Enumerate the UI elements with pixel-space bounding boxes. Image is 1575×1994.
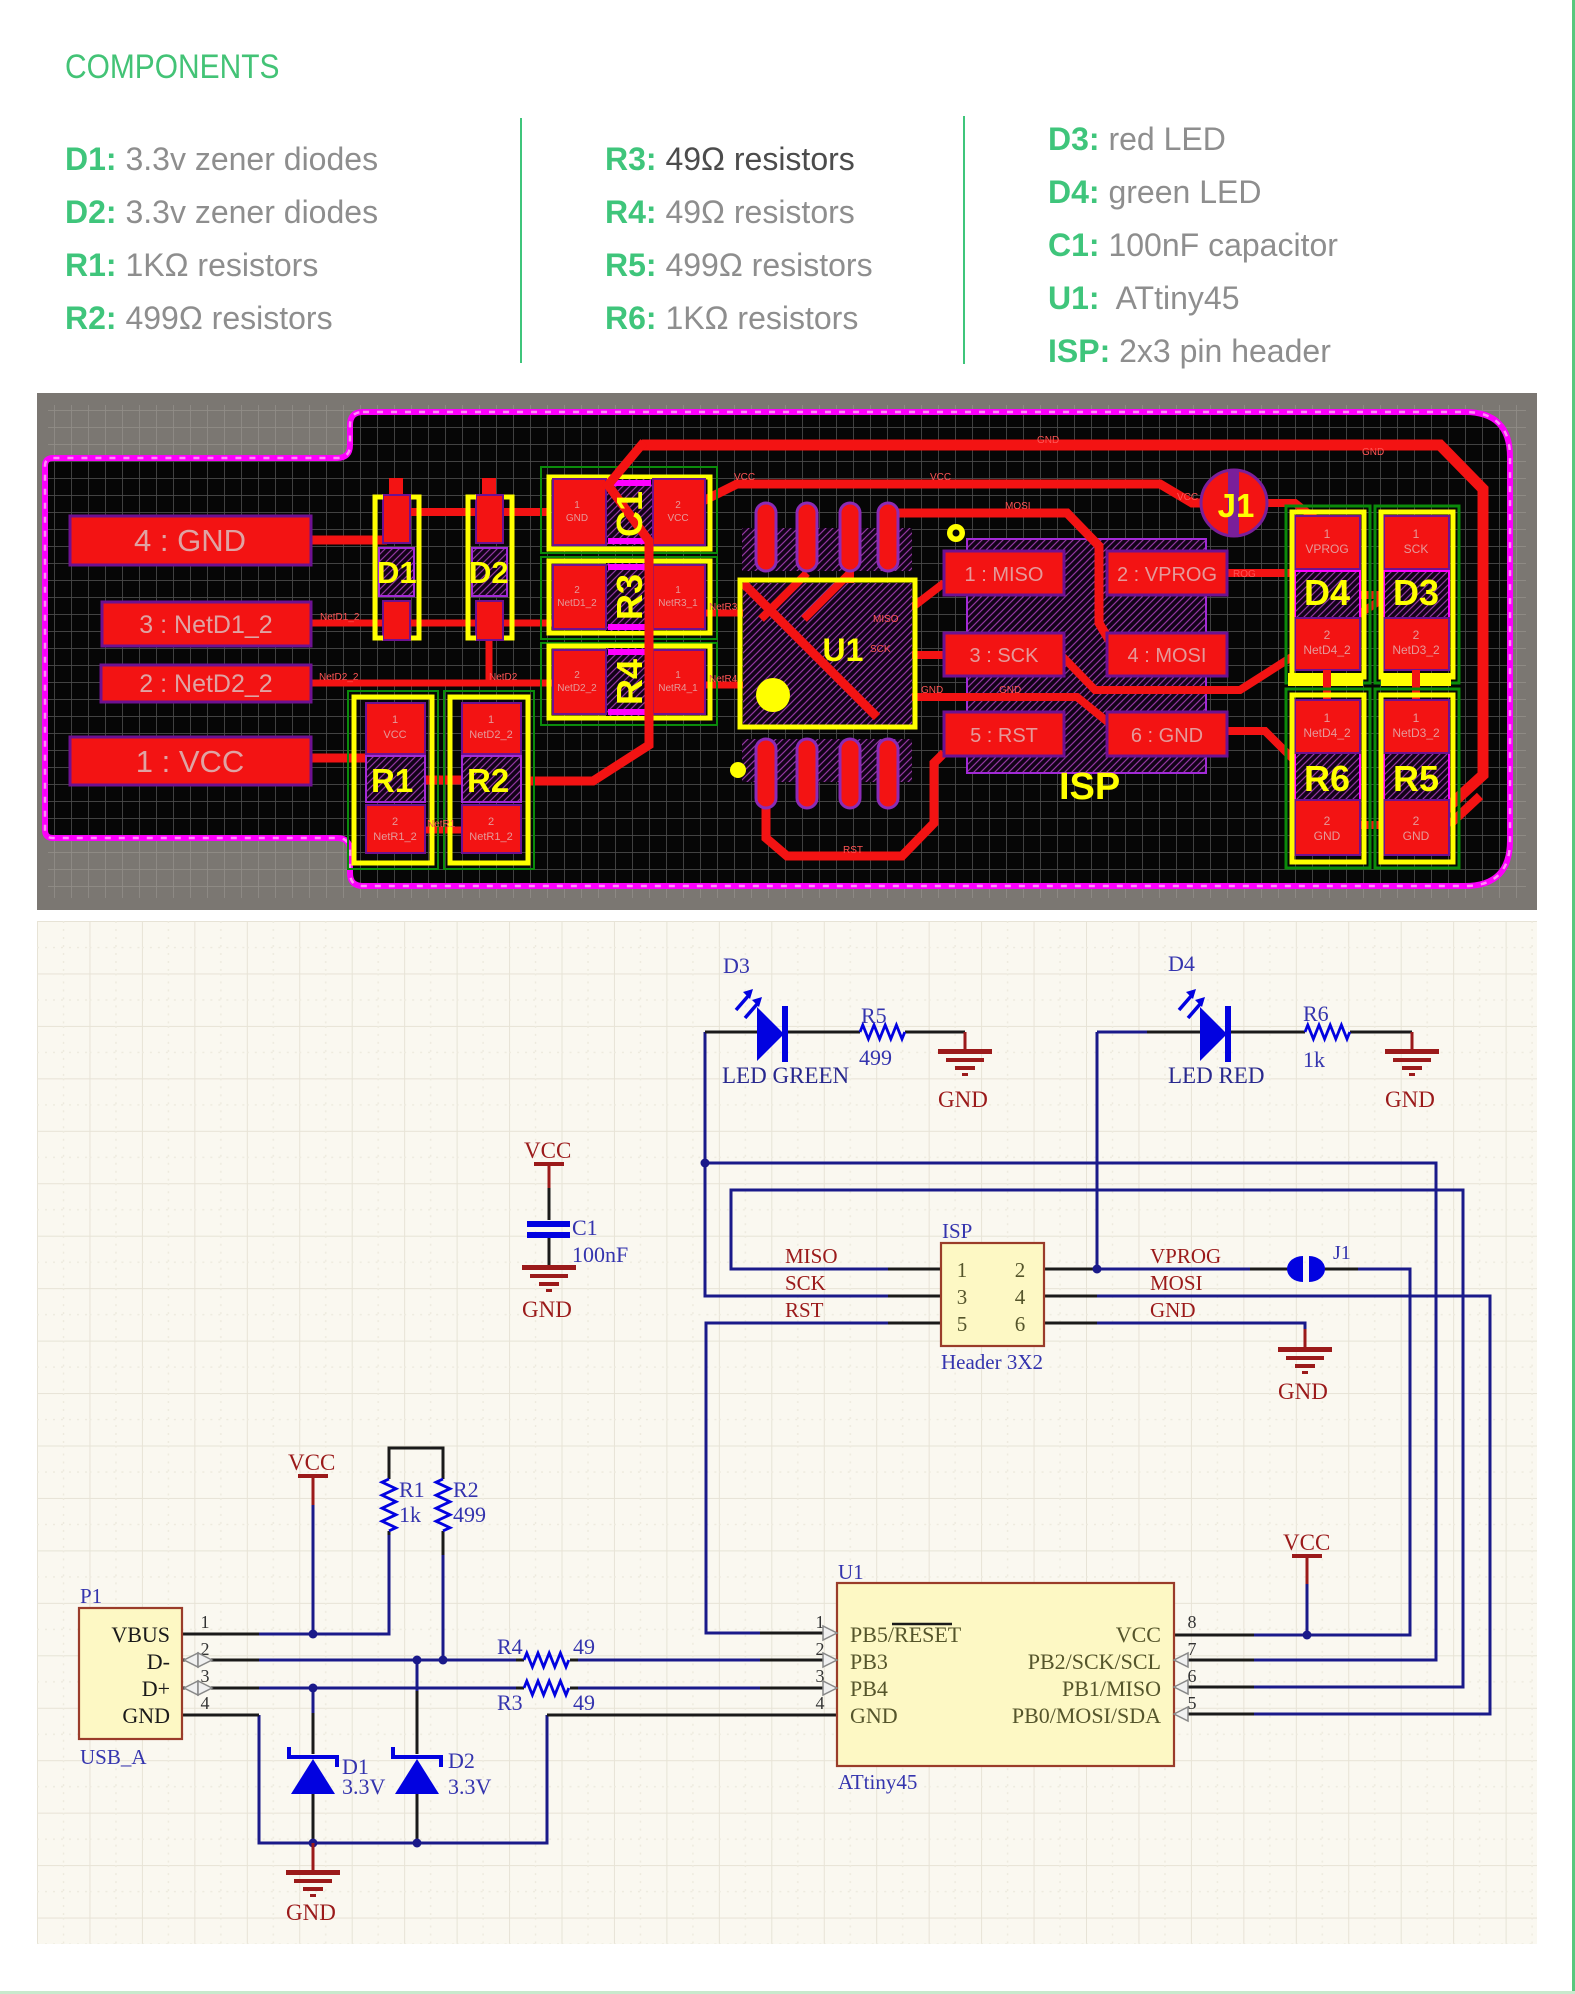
wire D3 row black segments [705, 1031, 965, 1034]
wire VBUS row [259, 1533, 389, 1634]
header ISP [941, 1219, 1044, 1374]
svg-text:NetD2_2: NetD2_2 [319, 672, 359, 683]
LED D4 [1168, 951, 1264, 1088]
svg-text:NetR3_1: NetR3_1 [658, 598, 698, 609]
black wire segments [182, 1032, 1412, 1843]
trace GND pad to R6 [1225, 731, 1299, 823]
trace 1:VCC pad to R1 [311, 754, 370, 763]
svg-text:1 : VCC: 1 : VCC [136, 744, 245, 779]
wire VCC tap to VBUS [312, 1505, 315, 1634]
svg-text:GND: GND [921, 685, 943, 696]
resistor R4 [497, 1634, 595, 1667]
svg-text:499: 499 [859, 1045, 892, 1070]
svg-text:1k: 1k [1303, 1047, 1325, 1072]
svg-text:LED GREEN: LED GREEN [722, 1063, 850, 1088]
svg-text:NetR1_2: NetR1_2 [373, 831, 416, 843]
zener diode D1 [289, 1747, 386, 1799]
wire D+ row [259, 1687, 760, 1690]
node D1-GND rail junction [309, 1839, 318, 1848]
wire D4 row black segments [1147, 1031, 1412, 1034]
trace NetD2_2 row [311, 680, 557, 687]
zener diode D2 [393, 1747, 492, 1799]
svg-text:1 : MISO: 1 : MISO [965, 564, 1044, 586]
svg-text:VCC: VCC [1283, 1530, 1330, 1555]
svg-text:SCK: SCK [785, 1271, 826, 1295]
wire C1 stem black parts [548, 1188, 551, 1265]
pin 2 bidirectional arrows [184, 1653, 212, 1695]
resistor R2 footprint [444, 691, 534, 869]
svg-text:J1: J1 [1333, 1242, 1351, 1264]
resistor R6 [1303, 1001, 1350, 1072]
wire VCC left stem [312, 1478, 315, 1505]
resistor R6 footprint [1286, 689, 1370, 868]
svg-text:J1: J1 [1218, 487, 1255, 524]
svg-text:SCK: SCK [870, 644, 891, 655]
svg-text:NetD4_2: NetD4_2 [1303, 726, 1351, 740]
wire GND stub D4 [1411, 1032, 1414, 1049]
svg-text:2: 2 [675, 500, 681, 511]
svg-text:2 : VPROG: 2 : VPROG [1117, 564, 1217, 586]
trace MOSI from U1 [888, 513, 1112, 645]
trace GND top ring [642, 445, 1483, 819]
svg-text:R3: R3 [609, 574, 650, 620]
svg-text:GND: GND [850, 1703, 898, 1728]
svg-text:D4: D4 [1304, 572, 1350, 613]
svg-text:2: 2 [574, 585, 580, 596]
resistor R1 footprint [348, 691, 438, 869]
grey frame of PCB image [37, 393, 1537, 910]
svg-text:3.3V: 3.3V [342, 1774, 386, 1799]
node VCC-pin8 junction [1303, 1631, 1312, 1640]
svg-text:NetR3: NetR3 [709, 602, 738, 613]
pad 3:NetD1_2 [102, 602, 311, 646]
svg-text:3.3V: 3.3V [448, 1774, 492, 1799]
wire U1 pin8 run [1254, 1634, 1410, 1637]
LED D3 [722, 953, 850, 1088]
wire around R3 zigzag [516, 1687, 578, 1690]
trace RST loop [766, 753, 944, 856]
svg-text:1: 1 [675, 585, 681, 596]
wire GND stub D3 [964, 1032, 967, 1049]
svg-text:VCC: VCC [1177, 492, 1198, 503]
svg-text:RST: RST [843, 845, 863, 856]
svg-text:2: 2 [488, 816, 494, 828]
svg-text:1: 1 [1413, 711, 1420, 725]
svg-text:GND: GND [1362, 447, 1384, 458]
svg-text:1: 1 [957, 1258, 968, 1282]
svg-text:4 : MOSI: 4 : MOSI [1128, 645, 1207, 667]
pin arrows left [823, 1626, 837, 1695]
svg-text:R1: R1 [399, 1477, 425, 1502]
svg-text:VCC: VCC [734, 472, 755, 483]
wire J1 stubs [1250, 1268, 1358, 1271]
wire P1 pin stubs [182, 1634, 259, 1715]
trace GND mid [912, 697, 1109, 723]
svg-text:LED RED: LED RED [1168, 1063, 1264, 1088]
wire VCC U1 stem [1306, 1558, 1309, 1584]
node R2-Dminus junction [439, 1656, 448, 1665]
svg-text:R5: R5 [861, 1003, 887, 1028]
svg-text:2: 2 [574, 670, 580, 681]
svg-text:VCC: VCC [524, 1138, 571, 1163]
svg-text:GND: GND [286, 1900, 336, 1925]
wire D4 anode vertical [1097, 1032, 1147, 1269]
wire RST: ISP pin5 to U1 pin1 (PB5) [706, 1323, 888, 1633]
power VCC at U1 [1283, 1530, 1330, 1558]
svg-text:SCK: SCK [1404, 542, 1429, 556]
svg-text:1: 1 [1324, 711, 1331, 725]
svg-text:5 : RST: 5 : RST [970, 725, 1038, 747]
trace 4:GND pad to D1 [311, 536, 387, 545]
resistor R3 footprint [541, 557, 717, 639]
trace R1-R2 mid bridge [425, 776, 466, 785]
svg-text:USB_A: USB_A [80, 1745, 147, 1769]
ground symbol bottom [286, 1843, 340, 1925]
svg-text:1: 1 [675, 670, 681, 681]
svg-text:NetR4: NetR4 [709, 674, 738, 685]
svg-text:ISP: ISP [1059, 766, 1120, 808]
via yellow dot lower left of U1 [730, 762, 746, 778]
wire below R2 zig [442, 1531, 445, 1555]
tiny red net name labels [319, 435, 1384, 856]
svg-text:NetR4_1: NetR4_1 [658, 683, 698, 694]
trace R4 right [705, 682, 760, 689]
trace U1 to SCK pad [912, 651, 944, 659]
svg-text:D4: D4 [1168, 951, 1195, 976]
svg-text:6: 6 [1188, 1666, 1197, 1686]
node D3-SCK junction [701, 1159, 710, 1168]
node D2-Dminus junction [413, 1656, 422, 1665]
capacitor C1 [527, 1215, 628, 1267]
trace VPROG pad to D4 [1225, 569, 1299, 577]
wire D2 top stub [416, 1660, 419, 1691]
component list column 2 [605, 133, 873, 345]
svg-text:7: 7 [1188, 1639, 1197, 1659]
svg-text:1: 1 [574, 500, 580, 511]
svg-text:VPROG: VPROG [1305, 542, 1348, 556]
svg-text:GND: GND [1385, 1087, 1435, 1112]
svg-text:MISO: MISO [873, 614, 899, 625]
svg-text:2: 2 [1413, 628, 1420, 642]
svg-text:NetD2_2: NetD2_2 [557, 683, 597, 694]
svg-text:NetD4_2: NetD4_2 [1303, 643, 1351, 657]
svg-text:VCC: VCC [667, 513, 688, 524]
svg-text:D3: D3 [1393, 572, 1439, 613]
stubs D4-R6 and D3-R5 [1327, 670, 1416, 705]
wire U1 GND pin run [547, 1714, 837, 1717]
svg-text:D2: D2 [469, 555, 509, 590]
IC U1 footprint [740, 503, 915, 808]
trace R5 to ring [1449, 796, 1480, 825]
trace U1 pad3 to MISO pad [850, 565, 944, 606]
black board area (USB stick outline) [45, 412, 1510, 886]
svg-text:GND: GND [938, 1087, 988, 1112]
svg-text:R2: R2 [467, 762, 509, 799]
pad 6:GND [1107, 712, 1227, 756]
svg-text:R1: R1 [371, 762, 413, 799]
trace NetD1_2 row [311, 620, 557, 627]
bottom light green strip [0, 1991, 1575, 1994]
svg-text:1: 1 [488, 714, 494, 726]
svg-text:GND: GND [122, 1703, 170, 1728]
svg-text:PB3: PB3 [850, 1649, 888, 1674]
wire D- row [259, 1659, 760, 1662]
svg-text:8: 8 [1188, 1612, 1197, 1632]
pin arrows right [1174, 1653, 1188, 1721]
wire D1 top stub [312, 1688, 315, 1713]
svg-text:GND: GND [566, 513, 588, 524]
svg-text:R6: R6 [1303, 1001, 1329, 1026]
PCB image placeholder [37, 393, 1537, 910]
node D1-Dplus junction [309, 1684, 318, 1693]
svg-text:D-: D- [147, 1649, 170, 1674]
wire D1 vertical black [312, 1713, 315, 1843]
pad 4:GND [70, 516, 311, 565]
pad 2:NetD2_2 [101, 665, 311, 702]
svg-text:D1: D1 [377, 555, 417, 590]
svg-text:GND: GND [999, 685, 1021, 696]
svg-text:D+: D+ [142, 1676, 170, 1701]
resistor R5 [859, 1003, 905, 1070]
wire VCC C1 stem [548, 1166, 551, 1188]
svg-text:C1: C1 [609, 491, 650, 537]
LED D3 footprint [1375, 506, 1459, 683]
jumper J1 [1201, 470, 1267, 536]
trace SCK to D3 [1062, 600, 1381, 690]
wire ISP pin6 to GND [1097, 1323, 1305, 1331]
wire ISP pin stubs [888, 1269, 1097, 1323]
svg-text:2: 2 [392, 816, 398, 828]
svg-text:ATtiny45: ATtiny45 [838, 1770, 917, 1794]
trace R6-R5 bottom bridge [1357, 821, 1385, 829]
trace C1 to R2 vertical [528, 442, 649, 781]
trace VCC horizontal [703, 484, 1204, 503]
svg-text:NetD3_2: NetD3_2 [1392, 726, 1440, 740]
component list column 3 [1048, 113, 1338, 378]
svg-text:R5: R5 [1393, 758, 1439, 799]
svg-text:GND: GND [1403, 829, 1430, 843]
capacitor C1 footprint [541, 467, 717, 553]
svg-text:D2: D2 [448, 1748, 475, 1773]
pad 4:MOSI [1107, 633, 1227, 676]
ground symbol at ISP [1278, 1347, 1332, 1404]
node D4-VPROG junction [1093, 1265, 1102, 1274]
IC U1 ATtiny45 [816, 1560, 1197, 1794]
svg-text:R4: R4 [609, 659, 650, 705]
wire P1 GND down, rail, up to U1 GND [259, 1715, 547, 1843]
svg-text:RST: RST [785, 1298, 824, 1322]
wire U1 left pin stubs [760, 1633, 837, 1688]
svg-text:2: 2 [1413, 814, 1420, 828]
svg-text:GND: GND [1150, 1298, 1196, 1322]
power VCC left [288, 1450, 335, 1478]
svg-text:R2: R2 [453, 1477, 479, 1502]
svg-text:5: 5 [1188, 1693, 1197, 1713]
wire MISO: ISP pin1 loop to U1 pin6 (PB1) [731, 1190, 1463, 1687]
resistor R1 [382, 1477, 425, 1531]
wire D3 anode down + SCK row to ISP pin3 [705, 1032, 888, 1296]
node VCC-VBUS junction [309, 1630, 318, 1639]
svg-text:GND: GND [522, 1297, 572, 1322]
svg-text:MOSI: MOSI [1150, 1271, 1203, 1295]
svg-text:4: 4 [816, 1693, 825, 1713]
svg-text:GND: GND [1037, 435, 1059, 446]
magenta board outline [45, 412, 1510, 886]
svg-text:P1: P1 [80, 1584, 102, 1608]
svg-text:2: 2 [1015, 1258, 1026, 1282]
svg-text:NetR1: NetR1 [427, 819, 456, 830]
svg-text:1: 1 [201, 1612, 210, 1632]
svg-text:100nF: 100nF [572, 1242, 628, 1267]
svg-text:GND: GND [1314, 829, 1341, 843]
svg-text:NetD1_2: NetD1_2 [557, 598, 597, 609]
wire D2 vertical black [416, 1691, 419, 1843]
svg-text:PB0/MOSI/SDA: PB0/MOSI/SDA [1012, 1703, 1161, 1728]
wire MOSI: ISP pin4 to U1 pin5 (PB0) [1097, 1296, 1490, 1714]
resistor R3 [497, 1681, 595, 1715]
wire VPROG from junction to J1 [1097, 1268, 1250, 1271]
svg-text:6 : GND: 6 : GND [1131, 725, 1203, 747]
svg-text:1: 1 [1324, 527, 1331, 541]
jumper J1 [1287, 1242, 1351, 1282]
svg-text:2: 2 [1324, 628, 1331, 642]
svg-text:VBUS: VBUS [111, 1622, 170, 1647]
trace J1 to D4 [1265, 503, 1322, 524]
junction dots [309, 1159, 1312, 1848]
svg-text:C1: C1 [572, 1215, 598, 1240]
dark red power stems [313, 1032, 1412, 1584]
wire J1 to VCC vertical to U1 pin8 [1254, 1269, 1410, 1635]
resistor R2 [436, 1477, 486, 1531]
pad 5:RST [944, 712, 1064, 756]
svg-text:3 : SCK: 3 : SCK [970, 645, 1040, 667]
svg-text:U1: U1 [838, 1560, 864, 1584]
LED D4 footprint [1286, 506, 1370, 683]
ground symbol at R6 [1385, 1049, 1439, 1112]
ISP hatch region [967, 539, 1206, 773]
svg-text:NetD2: NetD2 [489, 672, 518, 683]
via yellow ring near MOSI [947, 524, 965, 542]
svg-text:1: 1 [392, 714, 398, 726]
svg-text:NetD3_2: NetD3_2 [1392, 643, 1440, 657]
svg-text:499: 499 [453, 1502, 486, 1527]
svg-text:PB1/MISO: PB1/MISO [1062, 1676, 1161, 1701]
svg-text:R3: R3 [497, 1690, 523, 1715]
wire U1 right pin stubs [1174, 1635, 1254, 1714]
svg-text:49: 49 [573, 1634, 595, 1659]
svg-text:ISP: ISP [942, 1219, 972, 1243]
trace D4-D3 bridge [1359, 591, 1387, 599]
svg-text:R6: R6 [1304, 758, 1350, 799]
svg-text:VCC: VCC [1116, 1622, 1161, 1647]
wire around R4 zigzag [516, 1659, 578, 1662]
svg-text:2: 2 [1324, 814, 1331, 828]
svg-text:3 : NetD1_2: 3 : NetD1_2 [139, 611, 272, 639]
trace D1-D2-C1 top row [397, 508, 548, 516]
connector P1 USB_A [79, 1584, 212, 1769]
wire net D3/SCK to U1 pin7 (PB2) [705, 1163, 1436, 1660]
ground symbol at R5 [938, 1049, 992, 1112]
right green edge line [1572, 0, 1575, 1994]
svg-text:VCC: VCC [930, 472, 951, 483]
trace R1-R2 bottom bridge [425, 827, 466, 834]
wire R1 R2 top loop [389, 1448, 443, 1479]
trace D2 bottom stub [486, 633, 493, 683]
resistor R4 footprint [541, 643, 717, 725]
pad 2:VPROG [1107, 551, 1227, 595]
svg-text:6: 6 [1015, 1312, 1026, 1336]
yellow silscreen bars between D and R columns [1288, 673, 1363, 686]
svg-text:VPROG: VPROG [1150, 1244, 1221, 1268]
svg-text:ROG: ROG [1233, 569, 1256, 580]
svg-text:NetD1_2: NetD1_2 [320, 612, 360, 623]
svg-text:1: 1 [1413, 527, 1420, 541]
svg-text:PB2/SCK/SCL: PB2/SCK/SCL [1028, 1649, 1161, 1674]
diode D2 footprint [468, 478, 512, 640]
svg-text:49: 49 [573, 1690, 595, 1715]
trace R3 right [705, 610, 760, 617]
svg-text:4: 4 [1015, 1285, 1026, 1309]
pad 1:MISO [944, 551, 1064, 595]
svg-text:4 : GND: 4 : GND [134, 523, 246, 558]
svg-text:MISO: MISO [785, 1244, 838, 1268]
svg-text:4: 4 [201, 1693, 210, 1713]
svg-text:2 : NetD2_2: 2 : NetD2_2 [139, 670, 272, 698]
svg-text:VCC: VCC [288, 1450, 335, 1475]
power VCC at C1 [524, 1138, 571, 1166]
svg-text:Header 3X2: Header 3X2 [941, 1350, 1043, 1374]
pad 3:SCK [944, 633, 1064, 676]
wire GND stub ISP [1304, 1329, 1307, 1347]
wire R2 bottom to D- row [442, 1553, 445, 1660]
svg-text:VCC: VCC [383, 729, 406, 741]
wire VCC U1 stem [1306, 1584, 1309, 1635]
svg-text:PB4: PB4 [850, 1676, 888, 1701]
ground symbol at C1 [522, 1265, 576, 1322]
svg-text:3: 3 [957, 1285, 968, 1309]
wire below R1 zig [388, 1531, 391, 1535]
svg-text:MOSI: MOSI [1005, 501, 1031, 512]
resistor R5 footprint [1375, 689, 1459, 868]
schematic placeholder [37, 921, 1537, 1944]
svg-text:PB5/RESET: PB5/RESET [850, 1622, 962, 1647]
svg-text:U1: U1 [823, 632, 864, 668]
svg-text:GND: GND [1278, 1379, 1328, 1404]
svg-text:1k: 1k [399, 1502, 421, 1527]
svg-text:5: 5 [957, 1312, 968, 1336]
svg-text:D3: D3 [723, 953, 750, 978]
svg-text:NetD2_2: NetD2_2 [469, 729, 512, 741]
svg-text:NetR1_2: NetR1_2 [469, 831, 512, 843]
diode D1 footprint [375, 478, 419, 640]
svg-text:R4: R4 [497, 1634, 523, 1659]
component list column 1 [65, 133, 378, 345]
node D2-GND rail junction [413, 1839, 422, 1848]
grey grid area [48, 405, 1526, 898]
heading [65, 48, 279, 87]
pad 1:VCC [70, 737, 311, 785]
green column dividers [520, 118, 522, 363]
